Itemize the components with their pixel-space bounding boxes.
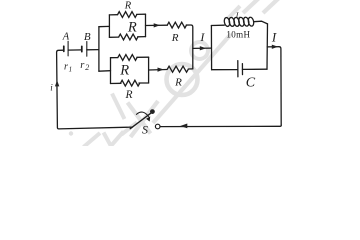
wire to box1 entry [99, 25, 110, 27]
watermark slash through ring [153, 34, 231, 123]
svg-text:I: I [271, 30, 277, 45]
resistor R3 (top run) [167, 22, 186, 28]
battery cell A/r1 : short plate [63, 46, 65, 51]
box2 right vertical [148, 57, 150, 83]
capacitor C left plate [237, 61, 239, 77]
exit wire with arrow I [267, 47, 281, 126]
resistor R4 (box2 top zigzag) [118, 55, 137, 61]
watermark a bowl (mid) [191, 42, 208, 59]
svg-text:R: R [127, 20, 137, 36]
watermark L strokes (behind switch) [131, 101, 159, 137]
LC box top edge to coil [211, 24, 224, 26]
svg-text:L: L [235, 11, 241, 20]
watermark extra band (behind coil) [228, 6, 241, 19]
svg-text:A: A [62, 32, 70, 43]
svg-text:i: i [50, 82, 53, 92]
watermark t stroke [84, 133, 101, 147]
LC box right vertical [266, 24, 269, 69]
wire R3 to corner, down [186, 25, 193, 69]
watermark n stroke (top right) [263, 0, 280, 13]
svg-text:R: R [119, 62, 129, 78]
wire R6 to junction vertical [188, 68, 193, 70]
resistor R6 (bottom run) [167, 66, 188, 72]
watermark y strokes [104, 133, 112, 148]
watermark r stroke (top right) [243, 0, 259, 13]
svg-text:R: R [171, 32, 179, 44]
bottom wire right segment with left arrow [160, 125, 281, 126]
box1 right vertical [145, 14, 147, 36]
wire coil to top-right corner [254, 21, 268, 24]
box2 top edge wire [111, 56, 149, 59]
svg-text:R: R [125, 89, 133, 101]
wire between cells [68, 49, 82, 51]
box1 top edge wire [109, 13, 145, 16]
battery cell A/r1 : long plate [67, 41, 69, 56]
box1 bottom edge wire [109, 36, 145, 39]
battery cell B/r2 : long plate [86, 42, 88, 57]
switch S blade [130, 113, 151, 128]
LC box bottom edge right segment [242, 68, 267, 70]
capacitor C right plate [241, 64, 243, 75]
box2 left vertical [110, 58, 112, 84]
wire to box2 entry [99, 70, 111, 73]
wire + arrow after box1 [146, 24, 168, 26]
wire battery to junction [87, 49, 99, 51]
svg-text:B: B [84, 31, 91, 43]
svg-text:r: r [64, 61, 68, 72]
box1 left vertical [108, 15, 110, 37]
switch close-direction curved arrow [136, 112, 148, 116]
LC box left vertical [210, 26, 212, 70]
switch S open terminal circle [155, 124, 160, 129]
battery cell B/r2 : short plate [81, 46, 83, 51]
box2 bottom edge wire [111, 82, 149, 85]
svg-text:10mH: 10mH [226, 30, 250, 40]
resistor R1 (box1 top zigzag) [118, 12, 137, 18]
svg-text:2: 2 [85, 63, 89, 72]
watermark i-dot [69, 131, 73, 135]
svg-text:R: R [174, 76, 182, 88]
svg-text:C: C [246, 75, 256, 90]
inductor L coils [224, 17, 231, 27]
junction vertical (left splitter) [98, 27, 100, 71]
resistor R5 (box2 bottom zigzag) [121, 80, 140, 86]
arrow i (up) on left vertical [55, 80, 59, 86]
svg-text:1: 1 [69, 65, 73, 73]
mid feed wire with arrow I [193, 47, 212, 49]
resistor R2 (box1 bottom zigzag) [119, 34, 138, 40]
wire: left vertical [57, 50, 133, 129]
watermark ring (e) [167, 64, 198, 95]
svg-text:S: S [142, 123, 148, 137]
switch S pivot dot [150, 109, 155, 114]
wire + arrow after box2 [149, 69, 167, 72]
LC box bottom edge left segment [212, 69, 238, 71]
svg-text:R: R [124, 0, 132, 11]
